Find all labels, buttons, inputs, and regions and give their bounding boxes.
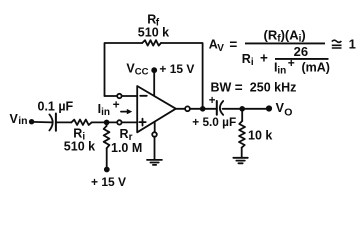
formula approx-equal 1 <box>332 36 356 51</box>
svg-text:+ 15 V: + 15 V <box>91 175 126 189</box>
node: junction dot at 10k resistor <box>239 106 245 112</box>
formula Av label <box>209 37 238 54</box>
wire: Rr bottom lead to +15V terminal <box>106 148 108 169</box>
wire: output circle to output coupling capacitor <box>190 108 217 110</box>
wire: resistor Ri to non-inverting terminal circle <box>92 121 118 123</box>
node: Vcc terminal dot <box>151 67 157 73</box>
label Ri <box>73 127 85 143</box>
op-amp plus sign <box>139 119 145 126</box>
svg-text:+: + <box>209 95 216 107</box>
svg-text:V: V <box>217 43 224 54</box>
pin circle: op-amp ground pin <box>152 132 157 137</box>
svg-text:V: V <box>10 112 19 126</box>
svg-text:250 kHz: 250 kHz <box>250 81 297 95</box>
wire: 10k resistor bottom lead <box>241 148 243 158</box>
label Rr <box>120 127 133 143</box>
node: input junction dot (Ri / Rr / + input) <box>104 120 110 126</box>
op-amp minus sign <box>140 95 147 97</box>
label Vcc <box>126 62 148 78</box>
wire: Vcc pin down to op-amp <box>153 70 155 95</box>
wire: op-amp output to output terminal circle <box>176 108 185 110</box>
node: output/feedback junction dot <box>200 106 206 112</box>
svg-text:10 k: 10 k <box>248 129 272 143</box>
svg-text:R: R <box>120 127 129 141</box>
wire: op-amp ground pin upper part <box>154 122 156 132</box>
svg-text:(mA): (mA) <box>302 60 330 74</box>
label Rf <box>147 13 160 29</box>
formula nested denominator Iin+ (mA) <box>274 56 330 76</box>
resistor R_i 510 k (zigzag) <box>71 120 91 125</box>
svg-text:1: 1 <box>349 36 356 51</box>
formula denominator Ri + <box>242 51 268 69</box>
pin circle: output terminal <box>185 106 190 111</box>
formula main fraction bar <box>245 42 325 44</box>
label Vin <box>10 112 28 127</box>
text BW = 250 kHz <box>211 80 297 95</box>
resistor R_f 510 k (zigzag) <box>142 40 161 45</box>
formula nested fraction bar <box>275 58 329 60</box>
wire: circle to op-amp inverting input <box>122 95 138 97</box>
resistor R_r 1.0 M (vertical zigzag) <box>104 126 110 148</box>
capacitor C2 5.0 uF curved plate <box>220 101 223 115</box>
wire: Vin dot to coupling capacitor <box>32 121 52 124</box>
wire: inverting-input stub from feedback corner <box>105 95 118 97</box>
svg-text:26: 26 <box>294 44 308 59</box>
svg-text:V: V <box>276 101 285 115</box>
svg-text:=: = <box>229 37 237 52</box>
svg-text:CC: CC <box>135 67 149 78</box>
svg-text:510 k: 510 k <box>64 139 95 153</box>
svg-text:+ 5.0 µF: + 5.0 µF <box>192 115 236 129</box>
svg-text:BW: BW <box>211 81 232 95</box>
svg-text:+ 15 V: + 15 V <box>159 62 194 76</box>
arrowhead: Iin+ current direction <box>127 109 132 114</box>
wire: feedback left vertical + top-left segment <box>105 43 143 96</box>
node: Vo terminal dot <box>266 105 272 111</box>
node: Vin input terminal dot <box>29 119 34 124</box>
wire: op-amp ground pin lower part <box>154 137 156 160</box>
ground symbol under op-amp <box>147 160 162 165</box>
svg-text:0.1 µF: 0.1 µF <box>38 100 74 114</box>
svg-text:=: = <box>235 80 243 95</box>
capacitor C1 0.1 uF curved plate <box>49 114 52 130</box>
pin circle: inverting input terminal <box>117 94 121 98</box>
wire: capacitor C2 to Vo terminal <box>223 108 269 110</box>
node: +15V terminal dot below Rr <box>104 167 110 173</box>
svg-text:i: i <box>251 57 254 68</box>
wire: Rr top lead from input junction <box>106 122 108 126</box>
resistor R_L 10 k (vertical zigzag) <box>239 121 245 148</box>
arrow: Iin+ current direction <box>121 111 127 113</box>
svg-text:+: + <box>288 56 295 70</box>
wire: capacitor to resistor Ri <box>56 121 72 123</box>
ground symbol under 10k <box>233 158 248 164</box>
svg-text:510 k: 510 k <box>138 26 169 40</box>
label Vo <box>276 101 293 119</box>
svg-text:R: R <box>242 52 251 66</box>
capacitor C1 0.1 uF straight plate <box>55 114 57 131</box>
svg-text:(Rf)(Ai): (Rf)(Ai) <box>264 27 306 44</box>
pin circle: non-inverting input terminal <box>117 120 121 124</box>
svg-text:+: + <box>260 51 268 66</box>
wire: feedback top-right segment + right vertical down to output node <box>161 43 203 109</box>
svg-text:1.0 M: 1.0 M <box>111 141 142 155</box>
svg-text:in: in <box>277 65 286 76</box>
svg-text:in: in <box>101 107 110 118</box>
label Iin+ <box>98 98 120 119</box>
wire: circle to op-amp non-inverting input <box>122 121 138 123</box>
op-amp U1 triangle <box>137 86 176 132</box>
capacitor C2 5.0 uF straight plate <box>216 101 218 115</box>
svg-text:+: + <box>113 98 120 112</box>
svg-text:in: in <box>18 115 27 127</box>
wire: 10k resistor top lead <box>241 109 243 121</box>
svg-text:O: O <box>284 107 292 119</box>
